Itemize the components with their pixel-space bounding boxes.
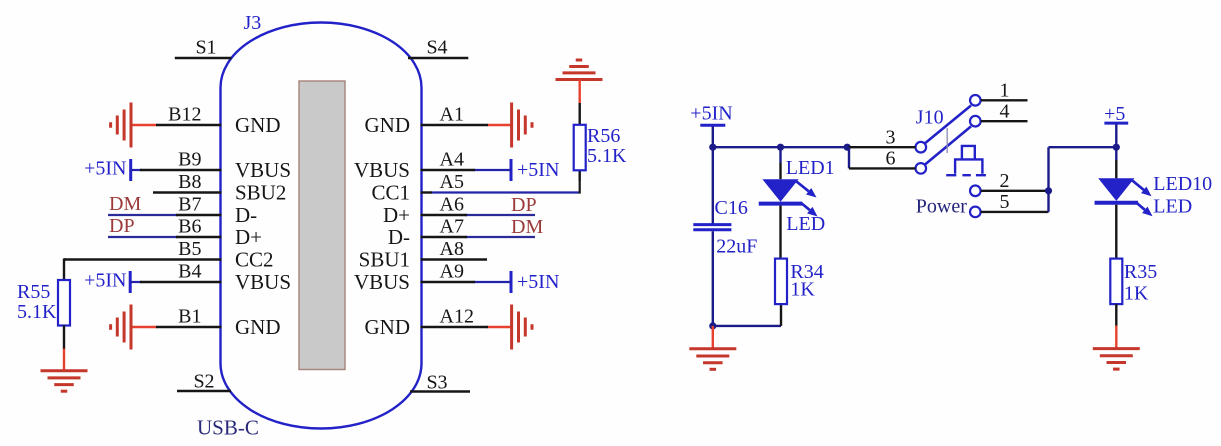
svg-text:J3: J3 (244, 12, 262, 34)
pin B4 of J3 (140, 281, 222, 283)
svg-text:5: 5 (1000, 191, 1010, 213)
junction at pin 2 (1045, 187, 1052, 194)
svg-text:6: 6 (886, 148, 896, 170)
svg-text:5.1K: 5.1K (587, 145, 627, 167)
junction at C16 ground node (709, 322, 716, 329)
svg-text:SBU1: SBU1 (359, 248, 410, 272)
svg-text:A6: A6 (440, 194, 464, 216)
svg-text:VBUS: VBUS (235, 270, 291, 294)
wire ground stem below C16 node (712, 326, 714, 350)
ground above R56 (556, 78, 603, 81)
svg-text:DM: DM (511, 216, 543, 238)
svg-text:USB-C: USB-C (197, 416, 259, 440)
svg-text:A1: A1 (440, 104, 464, 126)
svg-text:VBUS: VBUS (354, 270, 410, 294)
svg-text:DP: DP (511, 194, 537, 216)
wire +5IN down to rail (712, 127, 714, 148)
wire rail down to LED1 (779, 147, 781, 163)
junction at +5 stem (1113, 144, 1120, 151)
pin A6 of J3 (421, 214, 468, 216)
ground below C16 (689, 347, 736, 350)
wire LED1 to R34 (779, 206, 781, 259)
svg-text:DM: DM (109, 193, 141, 215)
wire bottom node to R34 (713, 325, 781, 327)
power port +5IN at A9 (510, 271, 513, 293)
pin B6 of J3 (176, 236, 222, 238)
svg-text:+5IN: +5IN (84, 158, 126, 180)
pin 5 line of J10 (981, 211, 1049, 213)
connector J3 body outline (221, 23, 422, 429)
wire rail down to C16 (712, 147, 714, 224)
wire A6 to DP (465, 214, 535, 216)
svg-text:SBU2: SBU2 (235, 181, 286, 205)
pin 2 line of J10 (981, 190, 1049, 192)
pin B7 of J3 (176, 214, 222, 216)
pin S1 of J3 (175, 57, 232, 59)
pin A5 of J3 (421, 191, 433, 193)
junction at +5IN rail (709, 144, 716, 151)
svg-text:GND: GND (365, 315, 411, 339)
svg-text:1K: 1K (790, 279, 815, 301)
pin S2 of J3 (177, 390, 231, 392)
ground at A12 (510, 305, 513, 350)
wire DP to B6 (108, 236, 178, 238)
svg-text:LED1: LED1 (786, 157, 835, 179)
svg-text:A9: A9 (440, 261, 464, 283)
svg-text:R56: R56 (587, 125, 620, 147)
power port +5IN at B9 (129, 159, 132, 181)
svg-text:J10: J10 (916, 107, 944, 129)
wire R55 to ground (63, 326, 65, 350)
pin A12 of J3 (421, 326, 489, 328)
svg-text:B7: B7 (178, 194, 201, 216)
wire +5IN to B4 (130, 281, 142, 283)
svg-text:GND: GND (235, 113, 281, 137)
svg-text:GND: GND (235, 315, 281, 339)
wire B12 to ground (131, 124, 157, 126)
wire CC2 down to R55 (63, 258, 65, 280)
wire B5/CC2 to R55 (64, 258, 66, 260)
switch J10 pin 1 terminal (970, 95, 981, 106)
wire ground to R56 (579, 80, 581, 105)
svg-text:VBUS: VBUS (354, 158, 410, 182)
svg-text:+5IN: +5IN (517, 271, 559, 293)
svg-text:S4: S4 (426, 37, 447, 59)
wire R35 to ground (1115, 304, 1117, 326)
pin 6 line of J10 (849, 167, 916, 169)
wire rail +5IN to switch (713, 146, 849, 148)
switch J10 pin 2 terminal (970, 186, 981, 197)
wire +5IN to B9 (131, 169, 142, 171)
LED LED1 (762, 179, 798, 202)
svg-text:Power: Power (916, 196, 967, 218)
power port +5IN at A4 (510, 159, 513, 181)
svg-text:GND: GND (365, 113, 411, 137)
wire branch down to pin 6 (848, 147, 850, 168)
svg-text:D+: D+ (383, 203, 410, 227)
pin B12 of J3 (156, 124, 222, 126)
resistor R55 (58, 280, 70, 326)
svg-text:22uF: 22uF (716, 235, 757, 257)
wire pins 2/5 to +5 node (1047, 147, 1049, 212)
svg-text:B4: B4 (178, 261, 201, 283)
svg-text:3: 3 (886, 127, 896, 149)
ground at B12 (130, 103, 133, 148)
svg-text:4: 4 (1000, 101, 1010, 123)
switch J10 lever 3-1 (925, 106, 971, 144)
svg-text:A7: A7 (440, 216, 464, 238)
pin B8 of J3 (153, 191, 222, 193)
pin B5 of J3 (64, 258, 222, 260)
wire A4 to +5IN (474, 169, 511, 171)
pin A7 of J3 (421, 236, 468, 238)
svg-text:A4: A4 (440, 149, 464, 171)
svg-text:D-: D- (388, 225, 410, 249)
svg-text:B6: B6 (178, 216, 201, 238)
wire A12 to ground (487, 326, 512, 328)
ground at A1 (510, 103, 513, 148)
ground at B1 (130, 305, 133, 350)
push button of J10 (962, 146, 975, 159)
svg-text:B8: B8 (178, 171, 201, 193)
pin 1 line of J10 (981, 99, 1028, 101)
svg-text:LED: LED (1153, 196, 1192, 218)
svg-text:CC2: CC2 (235, 248, 274, 272)
pin A8 of J3 (421, 258, 488, 260)
pin B1 of J3 (156, 326, 222, 328)
wire B1 to ground (131, 326, 157, 328)
svg-text:1: 1 (1000, 80, 1010, 102)
wire LED10 to R35 (1115, 205, 1117, 259)
svg-text:2: 2 (1000, 170, 1010, 192)
svg-text:VBUS: VBUS (235, 158, 291, 182)
wire up and right to +5 (1049, 146, 1117, 148)
resistor R35 (1110, 259, 1122, 305)
wire C16 to bottom junction (712, 231, 714, 326)
junction at LED1 branch (777, 144, 784, 151)
svg-text:DP: DP (109, 215, 135, 237)
LED1 arrow 1 (797, 182, 809, 192)
switch J10 coupling line (946, 128, 948, 153)
svg-text:B5: B5 (178, 238, 201, 260)
svg-text:CC1: CC1 (371, 181, 410, 205)
svg-text:A8: A8 (440, 238, 464, 260)
resistor R56 (574, 125, 586, 171)
svg-text:B1: B1 (178, 306, 201, 328)
switch J10 pin 6 terminal (916, 163, 927, 174)
svg-text:LED10: LED10 (1153, 173, 1212, 195)
pin A9 of J3 (421, 281, 476, 283)
svg-text:R35: R35 (1124, 261, 1157, 283)
svg-text:+5IN: +5IN (84, 270, 126, 292)
svg-text:B9: B9 (178, 149, 201, 171)
switch J10 pin 5 terminal (970, 207, 981, 218)
svg-text:+5IN: +5IN (690, 102, 732, 124)
wire A7 to DM (465, 236, 535, 238)
wire R34 bottom (780, 304, 782, 326)
svg-text:D+: D+ (235, 225, 262, 249)
switch J10 lever 6-4 (925, 126, 971, 164)
wire DM to B7 (108, 214, 178, 216)
svg-text:S1: S1 (195, 37, 216, 59)
pin 3 line of J10 (848, 146, 916, 148)
junction at switch branch (844, 144, 851, 151)
wire A5/CC1 to R56 (431, 191, 580, 193)
svg-text:B12: B12 (168, 104, 201, 126)
svg-text:S3: S3 (426, 372, 447, 394)
ground below R55 (41, 369, 88, 372)
LED10 arrow 2 (1136, 203, 1145, 210)
pin A1 of J3 (421, 124, 489, 126)
LED1 arrow 2 (801, 203, 810, 211)
svg-text:A12: A12 (440, 306, 474, 328)
svg-text:R55: R55 (17, 281, 50, 303)
capacitor C16 (693, 223, 731, 226)
LED LED10 (1098, 178, 1134, 201)
svg-text:A5: A5 (440, 171, 464, 193)
wire +5 down to LED10 (1115, 124, 1117, 160)
svg-text:5.1K: 5.1K (17, 301, 57, 323)
pin 4 line of J10 (981, 120, 1028, 122)
pin B9 of J3 (140, 169, 222, 171)
connector J3 centre slot (299, 81, 345, 370)
svg-text:1K: 1K (1124, 283, 1149, 305)
pin S4 of J3 (408, 57, 468, 59)
svg-text:C16: C16 (715, 197, 748, 219)
svg-text:S2: S2 (193, 371, 214, 393)
resistor R34 (775, 259, 787, 305)
switch J10 pin 4 terminal (970, 116, 981, 127)
wire R56 bottom (579, 170, 581, 181)
pin A4 of J3 (421, 169, 476, 171)
power port +5IN at B4 (129, 271, 132, 293)
LED10 arrow 1 (1132, 181, 1144, 190)
wire A1 to ground (487, 124, 512, 126)
pin S3 of J3 (410, 390, 470, 392)
switch J10 pin 3 terminal (916, 142, 927, 153)
svg-text:D-: D- (235, 203, 257, 227)
wire A9 to +5IN (474, 281, 511, 283)
ground below R35 (1093, 347, 1140, 350)
svg-text:LED: LED (786, 213, 825, 235)
svg-text:+5IN: +5IN (517, 159, 559, 181)
